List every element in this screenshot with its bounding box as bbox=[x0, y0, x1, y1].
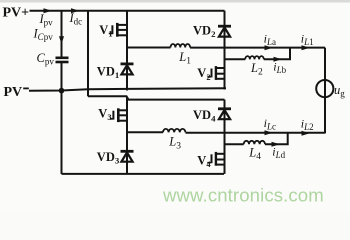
diode VD4 bbox=[218, 109, 231, 119]
arrow Ipv on top rail bbox=[44, 8, 52, 13]
arrow iL2 bbox=[302, 131, 310, 136]
arrow Idc on top rail bbox=[71, 8, 79, 13]
capacitor Cpv bbox=[56, 58, 69, 62]
wire: L3 output (lower wire1) bbox=[127, 131, 325, 134]
arrow iLa bbox=[265, 45, 273, 50]
arrow iL1 bbox=[302, 45, 310, 50]
wire: PV+ drop to lower bridge bbox=[87, 11, 89, 97]
MOSFET V1 bbox=[109, 23, 127, 37]
wire: L2 branch (upper wire2) with step bbox=[225, 48, 291, 60]
arrow iLb bbox=[274, 57, 282, 62]
arrow iLc bbox=[265, 130, 273, 135]
wire: PV+ top rail bbox=[30, 10, 225, 12]
wire: Cpv branch lower + drop to lower bottom rail bbox=[61, 63, 63, 174]
wire: PV- rail bbox=[29, 88, 226, 91]
wire: Cpv branch upper bbox=[61, 11, 63, 57]
inductor L2 bbox=[245, 56, 264, 59]
diode VD2 bbox=[218, 26, 231, 36]
wire: L1 output to grid (upper wire1) bbox=[127, 47, 171, 49]
diode VD1 bbox=[121, 64, 134, 75]
wire: L4 branch (lower wire2) with step bbox=[225, 133, 288, 144]
wire: leg2 lower conductor (VD4/V4) bbox=[224, 100, 226, 174]
inductor L4 bbox=[244, 141, 265, 144]
inductor L3 bbox=[163, 129, 185, 133]
wire: lower bridge bottom rail bbox=[62, 173, 225, 175]
diode VD3 bbox=[121, 151, 134, 161]
svg-text:PV+: PV+ bbox=[3, 6, 30, 21]
wire: lower bridge top rail bbox=[88, 96, 225, 99]
wire: right vertical through ug bbox=[324, 48, 326, 134]
MOSFET V4 bbox=[207, 152, 224, 166]
arrow iLd bbox=[272, 142, 280, 147]
junction dot at Cpv / PV- rail bbox=[59, 88, 65, 94]
wire: leg1 lower conductor (V3/VD3) bbox=[126, 97, 128, 174]
AC source ug circle bbox=[316, 80, 333, 97]
wire: leg1 upper conductor (V1/VD1) bbox=[126, 11, 128, 91]
svg-text:www.cntronics.com: www.cntronics.com bbox=[162, 185, 324, 206]
wire: leg2 upper conductor (VD2/V2) bbox=[224, 11, 226, 90]
MOSFET V2 bbox=[207, 66, 224, 80]
arrow ICpv downward bbox=[59, 36, 64, 44]
inductor L1 bbox=[171, 44, 191, 47]
svg-text:PV: PV bbox=[4, 85, 23, 100]
MOSFET V3 bbox=[110, 108, 127, 122]
